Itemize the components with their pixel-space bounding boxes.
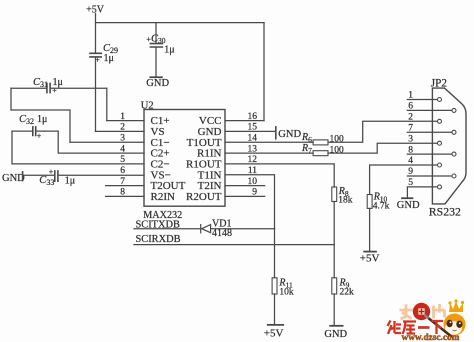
wire R11 to +5V: [274, 294, 276, 325]
capacitor C29 plus mark: [95, 56, 100, 65]
capacitor C31 plus: [52, 86, 57, 95]
ground label JP2 pin5: [397, 200, 420, 211]
JP2 contact dots right column: [452, 108, 456, 178]
svg-text:18k: 18k: [338, 195, 353, 205]
power +5V top label: [86, 5, 105, 16]
faint glyph 'wo': [400, 305, 413, 320]
resistor R9 label: [339, 278, 355, 298]
svg-text:1μ: 1μ: [65, 175, 75, 186]
svg-text:100: 100: [330, 145, 345, 155]
svg-text:2: 2: [120, 123, 125, 133]
svg-text:3: 3: [408, 134, 413, 144]
wire JP2 pin7: [407, 131, 452, 133]
svg-text:GND: GND: [397, 200, 420, 211]
wire JP2 pin8: [407, 153, 452, 155]
resistor R10: [367, 195, 372, 209]
wire JP2 pin4 to R10: [370, 165, 438, 195]
capacitor C32 label: [19, 114, 47, 126]
svg-text:GND: GND: [278, 129, 301, 140]
wire GND to C33: [23, 174, 54, 176]
wire pin7 T2OUT stub: [106, 185, 144, 187]
chip left pin names: [151, 115, 186, 203]
chip U2 designator: [141, 101, 154, 112]
red text yi: [418, 326, 430, 329]
svg-text:2: 2: [408, 113, 413, 123]
red text wei: [388, 321, 402, 335]
wire pin14 to R6: [225, 141, 313, 143]
svg-text:C33: C33: [39, 175, 54, 187]
wire pin11 T1IN down to diode node: [225, 175, 275, 278]
mascot crown: [448, 299, 464, 312]
wire pin15 GND: [225, 130, 276, 132]
resistor R10 label: [373, 191, 390, 211]
wire rail drop to VCC pin16: [263, 23, 265, 121]
wire C31 right to corner: [51, 87, 107, 89]
wire C29 bottom to pin2 VS: [95, 57, 97, 131]
power +5V label under R11: [264, 328, 284, 340]
node SCIRXDB label: [136, 234, 181, 245]
resistor R9: [332, 278, 337, 294]
svg-text:+5V: +5V: [360, 253, 380, 265]
svg-text:GND: GND: [324, 329, 347, 340]
resistor R7 label: [301, 143, 344, 155]
svg-text:+5V: +5V: [264, 328, 284, 340]
wire JP2 pin9: [407, 175, 452, 177]
wire pin13 to R7: [225, 152, 313, 154]
wire R8 to SCIRXDB node and R9: [333, 202, 335, 278]
wire pin1 C1+: [107, 120, 144, 122]
wire C30 bottom lead: [155, 48, 157, 77]
resistor R8: [332, 187, 337, 202]
faint glyph 'pian': [434, 304, 445, 319]
svg-text:3: 3: [120, 134, 125, 144]
wire pin2 VS: [96, 130, 145, 132]
resistor R11 label: [278, 278, 294, 298]
node SCITXDB label: [136, 220, 181, 231]
ground terminal bar left: [22, 172, 24, 181]
JP2 contact dots left column: [438, 98, 442, 189]
wire +5V lead down to C29: [95, 14, 97, 53]
mascot head: [444, 314, 466, 336]
svg-text:SCIRXDB: SCIRXDB: [136, 234, 181, 245]
resistor R6 label: [301, 132, 344, 144]
svg-text:R2OUT: R2OUT: [186, 191, 222, 203]
wire JP2 pin6: [407, 109, 452, 111]
ground bar under C30: [150, 76, 162, 78]
connector JP2 label: [431, 77, 447, 89]
capacitor C32 wire left: [12, 130, 32, 132]
wire C31 left drop: [11, 88, 70, 142]
wire R6 to JP2 pin2: [328, 121, 438, 142]
svg-text:R7: R7: [301, 143, 312, 155]
power +5V bar under R11: [268, 324, 283, 326]
capacitor C31 label: [33, 77, 63, 89]
diode VD1 label: [212, 218, 232, 239]
capacitor C29 label: [103, 43, 118, 64]
svg-text:5: 5: [120, 155, 125, 165]
wire SCIRXDB to R8 node: [134, 244, 334, 246]
connector JP2 DB9 outline: [432, 88, 466, 204]
svg-text:C31: C31: [33, 77, 48, 89]
wire pin12 R1OUT to R8: [225, 164, 334, 187]
svg-text:RS232: RS232: [429, 204, 461, 218]
svg-text:1μ: 1μ: [104, 53, 114, 64]
wire pin10 T2IN stub: [225, 185, 265, 187]
wire SCITXDB to diode and pin11 node: [134, 228, 275, 230]
capacitor C30: [150, 44, 162, 47]
capacitor C31 wire left: [11, 87, 46, 89]
svg-text:C32: C32: [19, 114, 34, 126]
svg-text:GND: GND: [146, 78, 169, 89]
op-amp U2 MAX232 chip body: [144, 110, 225, 207]
power +5V bar under R10: [364, 251, 376, 253]
power +5V label under R10: [360, 253, 380, 265]
svg-text:R2IN: R2IN: [151, 191, 176, 203]
svg-text:8: 8: [120, 188, 125, 198]
ground label under C30: [146, 78, 169, 89]
resistor R6: [313, 140, 328, 145]
chip MAX232 part label: [143, 210, 182, 221]
capacitor C32 plus: [37, 131, 42, 140]
wire C32 left to pin5: [12, 131, 144, 164]
red text xia: [432, 321, 444, 334]
pin numbers left 1-8: [120, 112, 125, 198]
wire R7 to JP2 pin3: [328, 143, 438, 153]
svg-text:1μ: 1μ: [37, 114, 47, 125]
watermark logo bottom right: [388, 299, 466, 342]
pin numbers right 16-9: [248, 112, 258, 198]
svg-text:4.7k: 4.7k: [373, 202, 390, 212]
svg-text:4148: 4148: [212, 228, 232, 239]
wire C30 lead from rail: [155, 23, 157, 44]
svg-text:1: 1: [120, 112, 125, 122]
capacitor C33: [55, 171, 58, 181]
ground label left: [2, 173, 25, 184]
resistor R11: [272, 278, 277, 294]
wire +5V rail horizontal: [96, 22, 265, 24]
capacitor C33 plus: [49, 168, 54, 177]
ground label pin15: [278, 129, 301, 140]
wire JP2 pin1: [407, 99, 437, 101]
wire R9 to ground: [333, 294, 335, 325]
red badge circle: [413, 303, 430, 320]
ground bar JP2 pin5: [402, 197, 412, 199]
capacitor C31: [47, 83, 50, 92]
wire JP2 pin5 to ground: [407, 187, 437, 198]
capacitor C32: [33, 127, 36, 135]
wire pin3 C1-: [70, 141, 144, 143]
svg-text:10k: 10k: [279, 288, 294, 298]
resistor R8 label: [338, 186, 353, 206]
red text ku: [403, 322, 417, 335]
diode VD1: [201, 225, 211, 233]
wire C31 right drop to pin1: [106, 88, 108, 120]
ground label under R9: [324, 329, 347, 340]
svg-text:7: 7: [120, 177, 125, 187]
capacitor C30 plus and label: [146, 34, 174, 56]
svg-text:6: 6: [120, 166, 125, 176]
ground terminal bar pin15: [275, 127, 277, 139]
svg-text:4: 4: [120, 144, 125, 154]
svg-text:+: +: [37, 131, 42, 140]
JP2 pin numbers: [408, 91, 413, 188]
capacitor C33 label: [39, 175, 75, 187]
svg-text:1μ: 1μ: [53, 77, 63, 88]
wire R10 to +5V: [369, 208, 371, 251]
wire C32 right to pin4: [37, 131, 145, 153]
svg-text:22k: 22k: [340, 288, 355, 298]
svg-text:+: +: [49, 168, 54, 177]
svg-text:GND: GND: [2, 173, 25, 184]
svg-text:1μ: 1μ: [164, 44, 174, 55]
wire pin8 R2IN stub: [106, 195, 144, 197]
wire C33 to pin6 VS-: [59, 174, 144, 176]
wire pin9 R2OUT stub: [225, 195, 265, 197]
wire pin16 VCC: [225, 120, 264, 122]
svg-text:U2: U2: [141, 101, 154, 112]
chip right pin names: [186, 115, 222, 203]
svg-text:www.dzsc.com: www.dzsc.com: [402, 333, 460, 342]
svg-text:100: 100: [330, 135, 345, 145]
svg-text:C30: C30: [151, 34, 166, 45]
capacitor C29: [90, 53, 101, 57]
connector RS232 label: [429, 204, 461, 218]
resistor R7: [313, 151, 328, 156]
ground bar under R9: [330, 325, 342, 327]
pen stylus: [427, 317, 452, 337]
